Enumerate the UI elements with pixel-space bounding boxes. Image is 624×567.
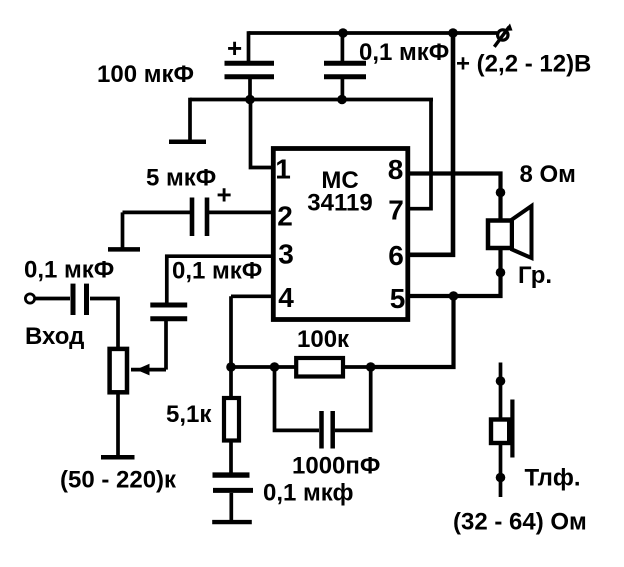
capacitor C2 0.1uF plate top (324, 61, 366, 66)
input terminal circle (25, 294, 34, 303)
node speaker top (496, 188, 506, 198)
wire pin1 connection (251, 100, 275, 168)
svg-text:(32 - 64) Ом: (32 - 64) Ом (453, 509, 587, 536)
svg-text:+: + (227, 33, 242, 63)
svg-text:5,1к: 5,1к (166, 401, 212, 428)
headphone Tlf side bar (510, 400, 514, 458)
power terminal plug ring (498, 30, 508, 40)
wire C6 left arm (275, 367, 320, 430)
ground under C7 (212, 520, 252, 524)
svg-text:6: 6 (388, 240, 404, 271)
svg-text:34119: 34119 (307, 190, 372, 217)
wire wiper riser (164, 321, 168, 370)
wire input to C4 (35, 297, 70, 301)
wire pin4 connection (231, 294, 274, 298)
wire feedback left segment (231, 365, 296, 369)
node junction top bus 1 (338, 28, 348, 38)
node C6 left (270, 362, 280, 372)
svg-text:1000пФ: 1000пФ (292, 453, 380, 480)
headphone Tlf bottom lead (499, 443, 503, 497)
node junction lower bus 1 (245, 95, 255, 105)
wire pin5 junction down (371, 296, 454, 367)
svg-text:3: 3 (278, 239, 294, 270)
capacitor C5 0.1uF plate bottom (150, 316, 187, 321)
ground near C3 (108, 247, 140, 252)
node junction lower bus 2 (337, 95, 347, 105)
svg-text:4: 4 (278, 282, 294, 313)
wire pin6 to supply (406, 31, 453, 255)
node junction top bus 2 (448, 28, 458, 38)
speaker Gr body square (488, 221, 512, 249)
op-amp U1 MC34119 body (273, 149, 408, 320)
svg-text:8 Ом: 8 Ом (520, 161, 576, 188)
wire lower bus (190, 98, 433, 102)
wire pin8 to speaker (406, 174, 501, 221)
wire C3 ground drop (121, 212, 125, 247)
headphone Tlf body (491, 420, 509, 444)
wire pin7 to lower bus (406, 100, 431, 209)
wire top supply bus (249, 31, 498, 35)
capacitor C1 100uF plate bottom (225, 74, 275, 79)
wire C2 bottom lead (341, 79, 345, 100)
capacitor C1 100uF plate top (225, 61, 275, 66)
capacitor C3 5uF plate right (205, 198, 210, 237)
wire speaker bottom to pin5 (406, 248, 501, 296)
wire C5 top to pin3 (167, 256, 274, 302)
svg-text:(50 - 220)к: (50 - 220)к (60, 467, 177, 494)
node headphone bottom (496, 473, 506, 483)
wire pin2 connection (209, 211, 274, 215)
wire C6 right arm (335, 367, 371, 430)
capacitor C2 0.1uF plate bottom (324, 74, 366, 79)
wire wiper horizontal (131, 368, 166, 372)
power terminal arrowhead (504, 24, 513, 32)
resistor R1 5.1k (224, 398, 239, 441)
svg-text:0,1 мкФ: 0,1 мкФ (359, 39, 449, 66)
svg-text:5: 5 (390, 283, 406, 314)
capacitor C7 0.1uF plate bottom (213, 488, 253, 493)
capacitor C4 0.1uF input plate right (84, 284, 89, 315)
svg-text:7: 7 (388, 195, 404, 226)
svg-text:0,1 мкФ: 0,1 мкФ (24, 257, 114, 284)
svg-text:Гр.: Гр. (518, 262, 552, 289)
capacitor C7 0.1uF plate top (213, 472, 250, 477)
svg-text:Вход: Вход (25, 323, 84, 350)
node junction pin5 (449, 291, 459, 301)
wire R2 right to junction (343, 365, 371, 369)
wire potentiometer bottom (116, 392, 120, 455)
svg-text:0,1 мкф: 0,1 мкф (263, 480, 353, 507)
svg-text:8: 8 (388, 154, 404, 185)
ground under potentiometer (101, 455, 135, 460)
wire C4 to potentiometer (90, 299, 118, 350)
potentiometer R3 wiper arrow (136, 364, 150, 376)
svg-text:+: + (217, 180, 232, 210)
wire R1 bottom lead (229, 441, 233, 473)
ground near C1 (169, 140, 206, 145)
capacitor C6 1000pF plate right (330, 411, 335, 449)
svg-text:100 мкФ: 100 мкФ (97, 61, 194, 88)
wire R1 top lead (229, 367, 233, 398)
svg-text:1: 1 (275, 154, 291, 185)
svg-text:5 мкФ: 5 мкФ (146, 165, 216, 192)
power terminal plug slash (494, 27, 509, 47)
svg-text:2: 2 (277, 201, 293, 232)
node speaker bottom (496, 268, 506, 278)
wire ground drop (188, 98, 192, 140)
svg-text:100к: 100к (297, 326, 350, 353)
capacitor C6 1000pF plate left (319, 411, 324, 449)
node headphone top (496, 376, 506, 386)
wire C3 left lead (123, 211, 191, 215)
capacitor C3 5uF plate left (190, 198, 195, 237)
speaker Gr horn (512, 206, 532, 258)
headphone Tlf top lead (499, 363, 503, 421)
resistor R2 100k (296, 358, 343, 377)
capacitor C4 0.1uF input plate left (71, 284, 76, 315)
wire C7 to ground (229, 493, 233, 521)
wire C1 bottom lead (248, 79, 252, 101)
wire C1 top lead (247, 31, 251, 61)
potentiometer R3 body (110, 349, 127, 392)
node feedback left (226, 362, 236, 372)
svg-text:0,1 мкФ: 0,1 мкФ (172, 258, 262, 285)
node C6 right (366, 362, 376, 372)
wire C2 top lead (341, 33, 345, 61)
svg-text:Тлф.: Тлф. (525, 465, 581, 492)
wire pin4 drop (229, 296, 233, 367)
capacitor C5 0.1uF plate top (150, 303, 187, 308)
svg-text:+ (2,2 - 12)В: + (2,2 - 12)В (456, 51, 591, 78)
